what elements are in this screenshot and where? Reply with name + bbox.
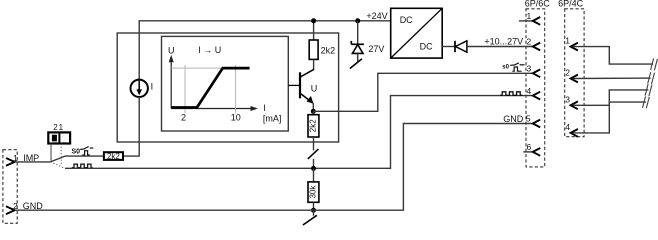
svg-text:I: I — [263, 103, 266, 113]
svg-text:6P/4C: 6P/4C — [558, 0, 584, 9]
wire slash to node — [313, 159, 315, 169]
svg-text:U: U — [168, 45, 175, 55]
wire +24V top rail — [139, 21, 391, 80]
graph U axis — [170, 59, 172, 109]
wire 2k2 to collector — [313, 59, 315, 69]
resistor 2k2 (bottom left, boxed) — [104, 152, 123, 160]
current source I1 — [131, 80, 148, 97]
svg-text:GND: GND — [503, 114, 524, 124]
svg-text:4: 4 — [565, 122, 570, 132]
jumper link dotted — [60, 144, 62, 165]
6P/4C pin 1 chevron — [571, 43, 578, 51]
zener diode 27V — [350, 21, 364, 69]
svg-text:I: I — [151, 81, 154, 91]
left connector (dashed box, IMP/GND) — [3, 150, 17, 224]
resistor 2k2 (rotated, below emitter) — [312, 111, 314, 114]
6P/4C pin 1 wire — [573, 47, 654, 65]
fork diagonal to s0 branch — [50, 156, 65, 162]
svg-text:s0: s0 — [502, 64, 509, 70]
node dot 30k top — [311, 166, 316, 171]
wire GND bottom — [15, 124, 533, 211]
graph gridline vertical 2 — [184, 65, 186, 113]
6P/6C pin 1 stub — [519, 20, 533, 22]
6P/4C pin 3 wire — [573, 90, 649, 105]
6P/6C pin 6 stub — [523, 151, 532, 153]
svg-text:2: 2 — [181, 112, 186, 122]
jumper link solid — [50, 144, 52, 161]
6P/6C pin 6 chevron — [533, 148, 540, 156]
wire current source to node below box — [123, 97, 139, 156]
svg-text:DC: DC — [400, 15, 413, 25]
6P/4C pin 2 wire — [573, 77, 651, 79]
6P/6C pin 4 chevron — [533, 92, 540, 100]
svg-text:27V: 27V — [368, 44, 384, 54]
6P/6C pin 1 chevron — [533, 17, 540, 25]
6P/6C pin 5 chevron — [533, 120, 540, 128]
6P/6C pin 3 chevron — [533, 69, 540, 77]
diode D1 — [455, 41, 467, 52]
graph gridline horizontal — [171, 67, 250, 69]
svg-text:+10...27V: +10...27V — [484, 36, 523, 46]
break slash — [308, 149, 319, 159]
connector 6P/4C (dashed box) — [565, 9, 584, 137]
svg-text:[mA]: [mA] — [263, 113, 282, 123]
svg-text:2k2: 2k2 — [321, 45, 336, 55]
resistor 30k — [313, 168, 315, 182]
wire s0 branch to resistor — [65, 155, 104, 157]
resistor 2k2 (top, vertical) — [309, 40, 318, 59]
6P/4C pin 3 chevron — [571, 101, 578, 109]
wire top rail to R 2k2 — [313, 21, 315, 40]
pulse glyph (right, pin4) — [500, 92, 522, 96]
cable break slashes — [643, 58, 658, 108]
fork dotted diagonal to pulse branch — [50, 162, 65, 168]
svg-text:+24V: +24V — [366, 11, 387, 21]
node dot emitter — [311, 109, 316, 114]
svg-text:4: 4 — [526, 86, 531, 96]
stub + break slash below — [313, 210, 315, 216]
svg-text:S0: S0 — [72, 148, 81, 155]
graph gridline vertical 10 — [235, 65, 237, 113]
svg-text:1: 1 — [526, 11, 531, 21]
svg-text:2k2: 2k2 — [309, 119, 318, 132]
6P/6C pin 2 chevron — [533, 43, 540, 51]
DC/DC converter U2 — [391, 8, 443, 58]
svg-text:30k: 30k — [309, 185, 318, 199]
6P/4C pin 2 chevron — [571, 75, 578, 83]
svg-text:DC: DC — [420, 42, 433, 52]
svg-text:U: U — [311, 83, 318, 93]
svg-text:2k2: 2k2 — [107, 152, 120, 161]
wire pulse branch long — [65, 96, 533, 169]
wire emitter to pin3 (s0 out) — [313, 73, 532, 111]
connector 6P/6C (dashed box) — [526, 9, 545, 167]
switch s0 glyph (left) — [80, 147, 93, 156]
node dot zener — [355, 18, 360, 23]
svg-text:3: 3 — [526, 64, 531, 74]
svg-text:2: 2 — [53, 123, 58, 132]
outer box (converter module boundary) — [117, 33, 338, 142]
wire diode to pin 2 — [467, 46, 533, 48]
pulse glyph (left branch) — [72, 164, 93, 168]
inner box (I->U function block) — [162, 36, 289, 131]
svg-text:6P/6C: 6P/6C — [525, 0, 551, 9]
svg-text:1: 1 — [565, 36, 570, 46]
svg-text:2: 2 — [565, 68, 570, 78]
svg-text:1: 1 — [59, 123, 64, 132]
node dot 30k bottom — [311, 208, 316, 213]
svg-text:6: 6 — [526, 142, 531, 152]
wire DC/DC out to diode — [442, 46, 455, 48]
jumper 2-1 — [48, 132, 70, 143]
6P/4C pin 4 wire — [573, 102, 646, 133]
graph I axis — [171, 108, 253, 110]
node dot rail/2k2 — [311, 18, 316, 23]
pin 2 chevron — [6, 206, 15, 214]
graph transfer curve — [172, 68, 250, 107]
svg-text:10: 10 — [231, 112, 241, 122]
switch s0 glyph (right) — [510, 63, 524, 71]
transistor Q1 — [288, 69, 314, 111]
svg-text:3: 3 — [565, 94, 570, 104]
wire below rotated 2k2 — [313, 137, 315, 150]
svg-text:2: 2 — [526, 37, 531, 47]
svg-text:5: 5 — [526, 114, 531, 124]
pin 1 chevron — [6, 158, 15, 166]
wire IMP to fork — [15, 161, 51, 163]
svg-text:I → U: I → U — [198, 45, 221, 55]
6P/4C pin 4 chevron — [571, 129, 578, 137]
